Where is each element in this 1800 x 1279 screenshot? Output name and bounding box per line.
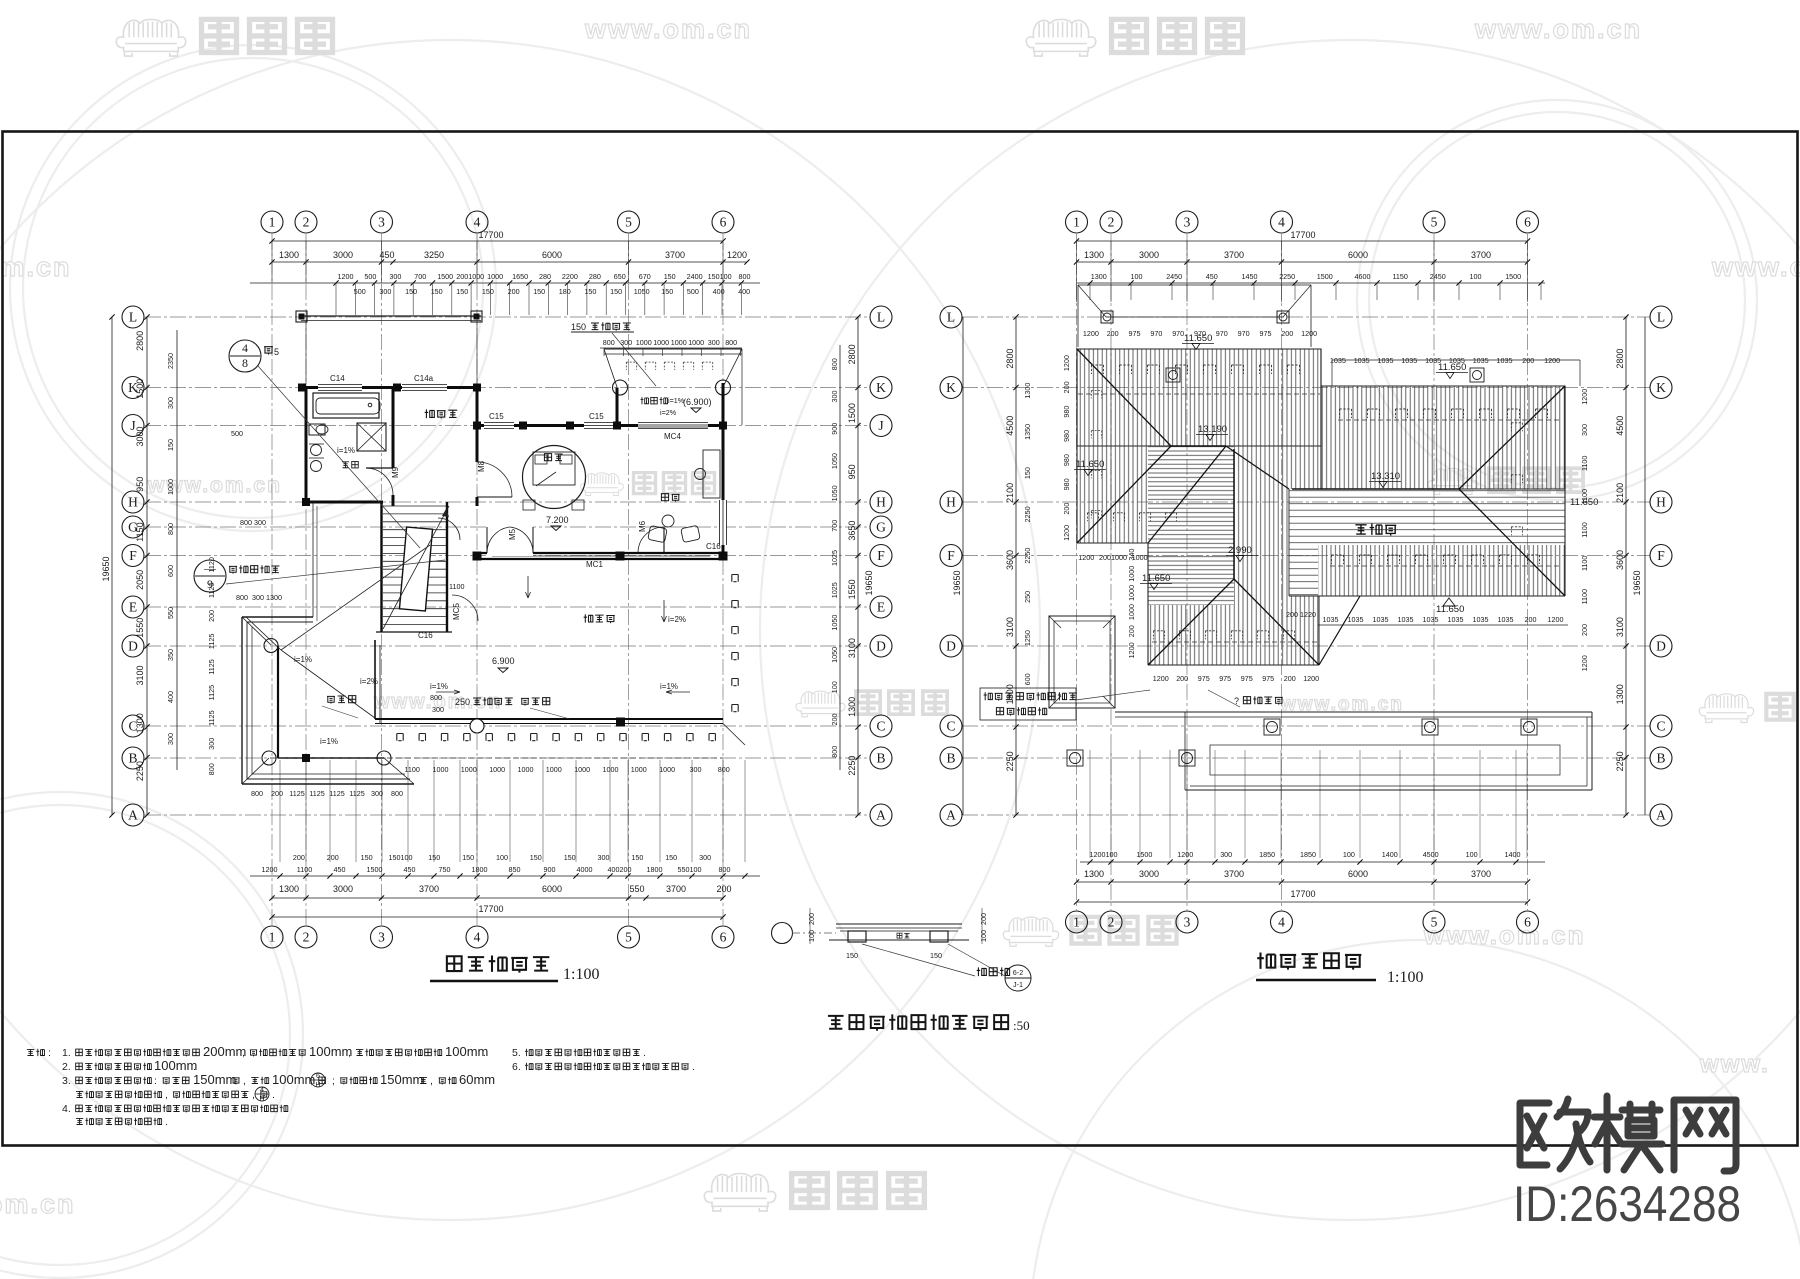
svg-text:K: K <box>876 380 886 395</box>
svg-text:1550: 1550 <box>847 579 857 599</box>
svg-text:6: 6 <box>1524 215 1531 230</box>
svg-text:1035: 1035 <box>1398 615 1414 624</box>
svg-text:3600: 3600 <box>1615 550 1625 570</box>
svg-text:4: 4 <box>1278 215 1285 230</box>
study furniture: chairs/table/desk <box>662 515 674 527</box>
svg-text:1000: 1000 <box>1127 585 1136 601</box>
dashed 3F wall edge note (leader) <box>984 692 993 700</box>
svg-text:1200: 1200 <box>1153 674 1169 683</box>
svg-text:980: 980 <box>1062 478 1071 490</box>
svg-text:J: J <box>878 418 883 433</box>
svg-text:11.650: 11.650 <box>1570 497 1598 508</box>
svg-text:.: . <box>483 1047 486 1059</box>
svg-text:280: 280 <box>589 272 601 281</box>
svg-text:.: . <box>643 1047 646 1059</box>
svg-text:2450: 2450 <box>1166 272 1182 281</box>
lower-left roof wing (2F roof below) <box>241 617 243 784</box>
svg-text:2250: 2250 <box>1615 751 1625 771</box>
svg-text:975: 975 <box>1241 674 1253 683</box>
svg-text:6000: 6000 <box>1348 250 1368 260</box>
svg-text:200: 200 <box>1281 329 1293 338</box>
svg-text:4500: 4500 <box>1423 850 1439 859</box>
svg-text:1200100: 1200100 <box>1090 850 1118 859</box>
svg-text:200: 200 <box>508 287 520 296</box>
leader to bubble 6-2/J-H <box>862 944 975 976</box>
svg-text:800: 800 <box>251 789 263 798</box>
svg-text:1300: 1300 <box>135 713 145 733</box>
svg-text:900: 900 <box>544 865 556 874</box>
svg-text:300: 300 <box>379 287 391 296</box>
svg-text:B: B <box>1656 751 1665 766</box>
door M6 <box>638 527 664 553</box>
svg-text:1035: 1035 <box>1354 356 1370 365</box>
svg-text:L: L <box>1657 310 1665 325</box>
left plan left dimension strip <box>111 317 113 815</box>
svg-text:300: 300 <box>166 397 175 409</box>
dashed wall underlay lines (3F walls below roof) <box>1078 393 1320 395</box>
svg-text:om.cn: om.cn <box>0 1189 76 1219</box>
svg-text:13.190: 13.190 <box>1198 424 1227 435</box>
svg-text:200: 200 <box>807 913 816 925</box>
svg-text:6: 6 <box>316 1071 320 1080</box>
svg-text:1500: 1500 <box>367 865 383 874</box>
svg-text:3000: 3000 <box>333 884 353 894</box>
svg-text:850: 850 <box>509 865 521 874</box>
title right: 屋顶平面图 1:100 <box>1257 952 1275 968</box>
svg-text:4: 4 <box>474 930 481 945</box>
svg-text:300: 300 <box>432 705 444 714</box>
svg-text:1035: 1035 <box>1497 356 1513 365</box>
svg-text:3: 3 <box>378 215 385 230</box>
svg-text:350: 350 <box>166 649 175 661</box>
svg-text:6.900: 6.900 <box>492 656 515 666</box>
svg-text:3700: 3700 <box>1224 250 1244 260</box>
svg-text:150: 150 <box>530 853 542 862</box>
svg-text:300: 300 <box>699 853 711 862</box>
svg-text::: : <box>154 1075 157 1087</box>
svg-text:1.: 1. <box>62 1047 71 1059</box>
svg-text:3000: 3000 <box>333 250 353 260</box>
svg-text:1300: 1300 <box>1005 684 1015 704</box>
svg-text:150: 150 <box>1023 467 1032 479</box>
left plan row bubbles left <box>122 306 144 328</box>
svg-text:F: F <box>877 548 885 563</box>
site logo 欧模网 <box>1520 1096 1736 1171</box>
wing ridge/slope lines 分水线 <box>281 545 430 650</box>
closet right wall x=477 <box>476 388 479 434</box>
svg-text:M9: M9 <box>391 466 400 478</box>
left plan row bubbles right <box>870 306 892 328</box>
svg-text:1150: 1150 <box>135 522 145 541</box>
svg-text:1125: 1125 <box>329 789 344 798</box>
svg-text:3700: 3700 <box>665 250 685 260</box>
svg-text:1000: 1000 <box>671 338 687 347</box>
svg-text:650: 650 <box>614 272 626 281</box>
svg-text:,: , <box>242 1047 245 1059</box>
svg-text:900: 900 <box>830 423 839 435</box>
svg-text:C14: C14 <box>330 374 345 383</box>
svg-text:C16: C16 <box>706 542 721 551</box>
left plan grid lines (rows A-L) <box>145 316 869 318</box>
svg-text:150100: 150100 <box>708 272 732 281</box>
svg-text:,: , <box>430 1075 433 1087</box>
svg-text:1500: 1500 <box>135 379 145 399</box>
bath inner wall x=393 with door M9 <box>392 388 395 469</box>
svg-text:100: 100 <box>1131 272 1143 281</box>
closet label 衣帽间 <box>425 409 435 418</box>
svg-text:800: 800 <box>830 746 839 758</box>
svg-text:100: 100 <box>1466 850 1478 859</box>
svg-text:150: 150 <box>665 853 677 862</box>
svg-text:700: 700 <box>414 272 426 281</box>
svg-text:H: H <box>946 495 956 510</box>
svg-text:1850: 1850 <box>1300 850 1316 859</box>
door arc near stair top (M5b) <box>438 518 460 540</box>
svg-text:.: . <box>165 1116 168 1128</box>
svg-text:150: 150 <box>846 951 858 960</box>
svg-text:1300: 1300 <box>279 250 299 260</box>
svg-text:2: 2 <box>1108 915 1115 930</box>
svg-text:L: L <box>877 310 885 325</box>
svg-text:1035: 1035 <box>1330 356 1346 365</box>
svg-text:2.990: 2.990 <box>1228 545 1252 556</box>
hollow piers on L <box>1101 311 1113 323</box>
svg-text:K: K <box>946 380 956 395</box>
wall F with long window MC1 <box>477 552 723 554</box>
svg-text:3700: 3700 <box>1471 250 1491 260</box>
svg-text:500: 500 <box>231 429 243 438</box>
terrace2 left wall <box>616 388 619 426</box>
title left: 三层平面图 1:100 <box>447 956 462 971</box>
svg-text:2250: 2250 <box>1005 751 1015 771</box>
jamb blocks <box>848 931 866 942</box>
svg-text:2.: 2. <box>62 1061 71 1073</box>
svg-text:1035: 1035 <box>1378 356 1394 365</box>
svg-text:300: 300 <box>690 765 702 774</box>
svg-text:1000: 1000 <box>603 765 619 774</box>
svg-text:C: C <box>1656 719 1665 734</box>
svg-text:150: 150 <box>456 287 468 296</box>
pier circles at K terrace2 <box>613 380 628 395</box>
svg-text:2450: 2450 <box>1430 272 1446 281</box>
svg-text:6000: 6000 <box>542 884 562 894</box>
svg-text:200: 200 <box>327 853 339 862</box>
svg-text:M8: M8 <box>477 460 486 472</box>
svg-text:280: 280 <box>539 272 551 281</box>
svg-text:1100: 1100 <box>449 582 464 591</box>
svg-text:1025: 1025 <box>830 582 839 598</box>
svg-text:1400: 1400 <box>1382 850 1398 859</box>
svg-text:C15: C15 <box>489 412 504 421</box>
svg-text:3100: 3100 <box>135 665 145 685</box>
svg-text:200mm: 200mm <box>203 1044 246 1059</box>
svg-text:1:100: 1:100 <box>1387 969 1423 986</box>
svg-text:19650: 19650 <box>952 570 962 595</box>
svg-text:1000: 1000 <box>489 765 505 774</box>
svg-text:6: 6 <box>1524 915 1531 930</box>
left plan bottom dimension strips <box>279 760 281 862</box>
svg-text:600: 600 <box>166 565 175 577</box>
svg-text:,: , <box>252 1089 255 1101</box>
svg-text:1100: 1100 <box>1580 456 1589 471</box>
terrace3 slab edge at C with piers <box>375 718 723 720</box>
svg-text:1300: 1300 <box>1023 383 1032 399</box>
svg-text:4.: 4. <box>62 1103 71 1115</box>
svg-text:150: 150 <box>564 853 576 862</box>
detail bubble 1/9 stair <box>194 560 226 592</box>
roof hatch region P3 lower eave band (vertical) <box>1318 545 1565 596</box>
svg-text:2800: 2800 <box>1615 349 1625 369</box>
svg-text:1200: 1200 <box>1544 356 1560 365</box>
roof hatch region P2 front wing (vertical) <box>1234 543 1289 665</box>
svg-text:1800: 1800 <box>472 865 488 874</box>
svg-text:D: D <box>1656 639 1666 654</box>
svg-text:1: 1 <box>1073 215 1080 230</box>
svg-text:1300: 1300 <box>847 697 857 717</box>
svg-text:300: 300 <box>620 338 632 347</box>
svg-text:4: 4 <box>242 341 248 355</box>
svg-text:1650: 1650 <box>512 272 528 281</box>
svg-text:.: . <box>692 1061 695 1073</box>
svg-text:J-1: J-1 <box>1013 980 1023 989</box>
svg-text:1800: 1800 <box>647 865 663 874</box>
svg-text:2100: 2100 <box>1615 483 1625 503</box>
svg-text:400: 400 <box>166 691 175 703</box>
svg-text:13.310: 13.310 <box>1371 471 1400 482</box>
svg-text:1035: 1035 <box>1448 615 1464 624</box>
svg-text:1035: 1035 <box>1401 356 1417 365</box>
svg-text:150: 150 <box>533 287 545 296</box>
svg-text:L: L <box>947 310 955 325</box>
svg-text:2250: 2250 <box>1023 548 1032 564</box>
svg-text:450: 450 <box>404 865 416 874</box>
svg-text:450: 450 <box>1206 272 1218 281</box>
svg-text:150: 150 <box>361 853 373 862</box>
svg-text:1150: 1150 <box>1392 272 1407 281</box>
svg-text:150: 150 <box>584 287 596 296</box>
svg-text:H: H <box>876 495 886 510</box>
parapet pier circles <box>1264 719 1280 735</box>
right plan left dimension strips <box>962 317 964 815</box>
svg-text:A: A <box>128 808 138 823</box>
svg-text:1000: 1000 <box>688 338 704 347</box>
svg-text:200: 200 <box>1284 674 1296 683</box>
svg-text:2200: 2200 <box>562 272 578 281</box>
svg-text:2100: 2100 <box>1005 483 1015 503</box>
svg-text:5: 5 <box>1431 215 1438 230</box>
svg-text:1125: 1125 <box>309 789 324 798</box>
svg-text:6: 6 <box>720 215 727 230</box>
svg-text:8: 8 <box>242 356 248 370</box>
svg-text:800: 800 <box>236 593 248 602</box>
svg-text:;: ; <box>332 1075 335 1087</box>
svg-text:150: 150 <box>631 853 643 862</box>
wall H below bath <box>302 501 383 504</box>
svg-text:980: 980 <box>1062 406 1071 418</box>
svg-text:150: 150 <box>405 287 417 296</box>
svg-text:.: . <box>272 1089 275 1101</box>
right plan grid columns <box>1076 234 1078 910</box>
svg-text:i=1%: i=1% <box>430 682 448 691</box>
svg-text:975: 975 <box>1198 674 1210 683</box>
right plan bottom dimension strips <box>1089 750 1091 858</box>
label 坡屋面 <box>1355 525 1366 534</box>
svg-text:300: 300 <box>371 789 383 798</box>
svg-text:1200: 1200 <box>1580 655 1589 671</box>
svg-text:3700: 3700 <box>1471 869 1491 879</box>
svg-text:970: 970 <box>1172 329 1184 338</box>
svg-text:D: D <box>128 639 138 654</box>
svg-text:150mm: 150mm <box>193 1072 236 1087</box>
svg-text:G: G <box>876 520 886 535</box>
svg-text:970: 970 <box>1216 329 1228 338</box>
svg-text:1100: 1100 <box>297 865 312 874</box>
left exterior wall of bath <box>305 388 308 507</box>
wing inner thick wall <box>277 646 279 759</box>
label 主卧 <box>544 454 551 461</box>
svg-text:2800: 2800 <box>847 344 857 364</box>
svg-text:,: , <box>348 1047 351 1059</box>
svg-text:1200: 1200 <box>1580 389 1589 405</box>
svg-text:i=1%: i=1% <box>660 682 678 691</box>
svg-text:100mm: 100mm <box>154 1058 197 1073</box>
svg-text:1: 1 <box>269 930 276 945</box>
right plan grid rows <box>962 316 1650 318</box>
right plan bubbles top <box>1066 211 1088 233</box>
svg-text:300: 300 <box>708 338 720 347</box>
svg-text:600: 600 <box>1023 673 1032 685</box>
round bed in master bedroom <box>523 446 586 509</box>
svg-text:www.om.cn: www.om.cn <box>1423 920 1586 950</box>
terrace3 labels <box>584 614 593 622</box>
svg-text:2350: 2350 <box>166 353 175 369</box>
svg-text:150mm: 150mm <box>380 1072 423 1087</box>
svg-text:200: 200 <box>293 853 305 862</box>
svg-text:1250: 1250 <box>1023 630 1032 646</box>
svg-text:1000: 1000 <box>1127 566 1136 582</box>
svg-text:150: 150 <box>166 439 175 451</box>
svg-text:1300: 1300 <box>279 884 299 894</box>
svg-text:1050: 1050 <box>830 453 839 469</box>
svg-text:550: 550 <box>629 884 644 894</box>
svg-text:C: C <box>946 719 955 734</box>
wall K (bath/closet top) with windows C14 C14a <box>302 386 481 389</box>
svg-text:1125: 1125 <box>207 685 216 700</box>
svg-text:6000: 6000 <box>1348 869 1368 879</box>
svg-text:19650: 19650 <box>1632 570 1642 595</box>
svg-text:200: 200 <box>1522 356 1534 365</box>
svg-text:200: 200 <box>1127 625 1136 637</box>
svg-text:A: A <box>876 808 886 823</box>
wing pier circles <box>264 639 278 653</box>
svg-text:1000: 1000 <box>487 272 503 281</box>
svg-text:950: 950 <box>847 464 857 479</box>
svg-text:3: 3 <box>1184 215 1191 230</box>
svg-text:550: 550 <box>166 607 175 619</box>
svg-text:F: F <box>1657 548 1665 563</box>
svg-text:980: 980 <box>1062 454 1071 466</box>
svg-text:100: 100 <box>1343 850 1355 859</box>
svg-text:1500: 1500 <box>1136 850 1152 859</box>
svg-text:4500: 4500 <box>1615 416 1625 436</box>
svg-text:om.cn: om.cn <box>0 252 72 282</box>
svg-text:1200: 1200 <box>1303 674 1319 683</box>
svg-text:2: 2 <box>303 930 310 945</box>
door M5 (double) at master bottom <box>487 514 533 556</box>
svg-text:6: 6 <box>720 930 727 945</box>
svg-text:450: 450 <box>334 865 346 874</box>
svg-text:2250: 2250 <box>1023 506 1032 522</box>
eave outline extensions <box>1320 349 1322 386</box>
roof hatch region P3 lower (horizontal sparse) <box>1289 489 1565 545</box>
detail: window sill section <box>836 923 962 925</box>
svg-text:1035: 1035 <box>1473 356 1489 365</box>
svg-text:150: 150 <box>664 272 676 281</box>
svg-text:1500: 1500 <box>1317 272 1333 281</box>
svg-text:1200: 1200 <box>338 272 354 281</box>
svg-text:A: A <box>946 808 956 823</box>
svg-text:180: 180 <box>559 287 571 296</box>
svg-text:2250: 2250 <box>135 761 145 781</box>
svg-text:2800: 2800 <box>135 331 145 351</box>
svg-text:975: 975 <box>1129 329 1141 338</box>
svg-text:1125: 1125 <box>207 634 216 649</box>
svg-text:3700: 3700 <box>419 884 439 894</box>
left plan column bubbles bottom <box>261 926 283 948</box>
svg-text:800: 800 <box>430 693 442 702</box>
svg-text::: : <box>48 1047 51 1059</box>
svg-text:H: H <box>128 495 138 510</box>
master bedroom left wall x=477 J..F with door M8 <box>476 426 479 463</box>
svg-text:3250: 3250 <box>424 250 444 260</box>
svg-text:L: L <box>129 310 137 325</box>
svg-text:E: E <box>129 600 137 615</box>
svg-text:1125: 1125 <box>207 659 216 674</box>
svg-text:100: 100 <box>807 930 816 942</box>
svg-text:(6.900): (6.900) <box>683 397 712 407</box>
svg-text:5: 5 <box>625 215 632 230</box>
right plan bubbles bottom <box>1066 911 1088 933</box>
svg-text:4: 4 <box>1278 915 1285 930</box>
svg-text:1050: 1050 <box>830 647 839 663</box>
left plan column bubbles top <box>261 211 283 233</box>
svg-text:1300: 1300 <box>1084 250 1104 260</box>
svg-text:975: 975 <box>1219 674 1231 683</box>
dim slash ticks top <box>269 238 274 243</box>
svg-text:i=1%: i=1% <box>320 737 338 746</box>
svg-text:1200: 1200 <box>262 865 278 874</box>
svg-text:1000: 1000 <box>546 765 562 774</box>
railing posts row under C wall <box>397 734 403 741</box>
svg-text:2001000: 2001000 <box>1099 553 1127 562</box>
svg-text:970: 970 <box>1150 329 1162 338</box>
svg-text:H: H <box>259 1094 264 1103</box>
svg-text:150: 150 <box>930 951 942 960</box>
svg-text:200: 200 <box>1286 610 1298 619</box>
svg-text:19650: 19650 <box>101 556 111 581</box>
svg-text:B: B <box>876 751 885 766</box>
svg-text:800: 800 <box>391 789 403 798</box>
svg-text:D: D <box>876 639 886 654</box>
svg-text:300: 300 <box>830 391 839 403</box>
railing posts right wall column <box>732 575 738 582</box>
svg-text:2400: 2400 <box>687 272 703 281</box>
svg-text:200: 200 <box>1107 329 1119 338</box>
svg-text:100: 100 <box>979 930 988 942</box>
svg-text:970: 970 <box>1194 329 1206 338</box>
svg-text:F: F <box>129 548 137 563</box>
svg-text:i=2%: i=2% <box>660 408 677 417</box>
